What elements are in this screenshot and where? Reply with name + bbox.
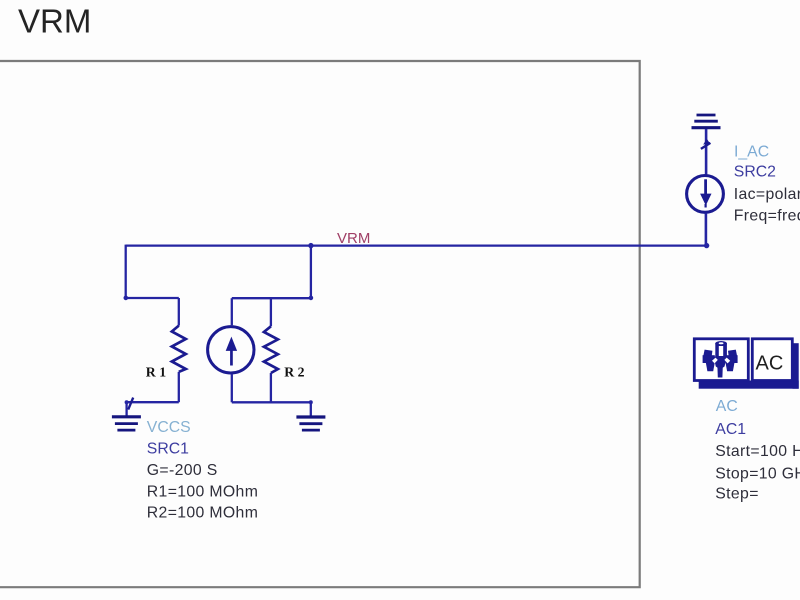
pin slash mark VCCS: [128, 398, 133, 410]
junction dot node VRM: [308, 243, 313, 248]
wire lower-left horizontal: [126, 297, 179, 299]
junction dot bottom-right corner: [309, 400, 313, 404]
ground top (flipped) for I_AC: [692, 115, 721, 128]
schematic frame border: [0, 61, 640, 587]
I_AC arrow down: [700, 179, 711, 207]
junction dot I_AC: [704, 243, 709, 248]
svg-text:SRC1: SRC1: [147, 441, 189, 458]
wire node vertical drop: [310, 245, 312, 299]
svg-text:AC: AC: [716, 398, 738, 415]
wire bottom-mid horizontal: [232, 401, 311, 403]
current source I_AC SRC2 circle: [687, 176, 724, 213]
junction dot lower-left: [124, 296, 129, 301]
svg-text:R1=100 MOhm: R1=100 MOhm: [147, 483, 258, 500]
svg-text:G=-200 S: G=-200 S: [147, 462, 218, 479]
svg-text:I_AC: I_AC: [734, 143, 769, 160]
wire VRM main horizontal: [126, 244, 708, 246]
svg-text:VCCS: VCCS: [147, 419, 191, 436]
junction dot bottom-left corner: [125, 400, 129, 404]
right band: [726, 355, 738, 363]
center hub: [714, 357, 728, 370]
wire left vertical drop: [125, 245, 127, 298]
AC controller left cell: [694, 339, 748, 381]
svg-text:VRM: VRM: [18, 3, 91, 40]
bottom right leg: [726, 363, 735, 372]
svg-text:VRM: VRM: [337, 230, 370, 247]
AC controller right cell: [752, 339, 792, 381]
wire R1 top lead: [178, 298, 180, 326]
svg-text:AC: AC: [756, 352, 784, 374]
wire VCCS bottom lead: [231, 374, 233, 402]
wire R2 bottom lead: [270, 373, 272, 402]
svg-text:Freq=freq: Freq=freq: [734, 208, 800, 225]
bottom shaft: [717, 366, 722, 378]
wire I_AC top lead: [705, 129, 708, 175]
AC controller gear icon: [703, 341, 738, 378]
wire left ground stub: [125, 402, 127, 415]
left band: [703, 355, 715, 363]
resistor R1: [172, 326, 186, 372]
left upper tooth: [703, 350, 712, 358]
pin arrow mark I_AC: [701, 139, 711, 149]
svg-text:Start=100 Hz: Start=100 Hz: [715, 443, 800, 460]
top shaft cylinder: [715, 344, 727, 358]
junction dot lower-mid: [309, 296, 314, 301]
svg-text:R 2: R 2: [284, 364, 304, 379]
wire R1 bottom lead: [178, 372, 180, 402]
svg-text:Stop=10 GHz: Stop=10 GHz: [715, 465, 800, 482]
wire right ground stub: [310, 402, 312, 416]
svg-text:Step=: Step=: [715, 486, 758, 503]
svg-text:AC1: AC1: [715, 421, 746, 438]
svg-text:R2=100 MOhm: R2=100 MOhm: [147, 505, 258, 522]
right upper tooth: [728, 350, 737, 358]
wire bottom-left horizontal: [127, 401, 179, 403]
wire VCCS top lead: [231, 298, 233, 325]
svg-text:Iac=polar(dbpolar(0,0),0) A: Iac=polar(dbpolar(0,0),0) A: [734, 186, 800, 203]
bottom left leg: [706, 363, 715, 372]
svg-text:SRC2: SRC2: [734, 163, 776, 180]
wire R2 top lead: [270, 298, 272, 326]
gear icon white cutouts: [712, 342, 730, 363]
VCCS arrow up: [226, 337, 237, 366]
wire I_AC bottom lead: [705, 213, 708, 246]
ground left: [112, 417, 141, 430]
wire lower-mid horizontal: [232, 297, 311, 299]
resistor R2: [264, 326, 278, 373]
ground right: [296, 417, 325, 430]
svg-text:R 1: R 1: [146, 365, 166, 380]
AC controller shadow: [699, 343, 799, 389]
VCCS source SRC1 circle: [208, 327, 254, 373]
